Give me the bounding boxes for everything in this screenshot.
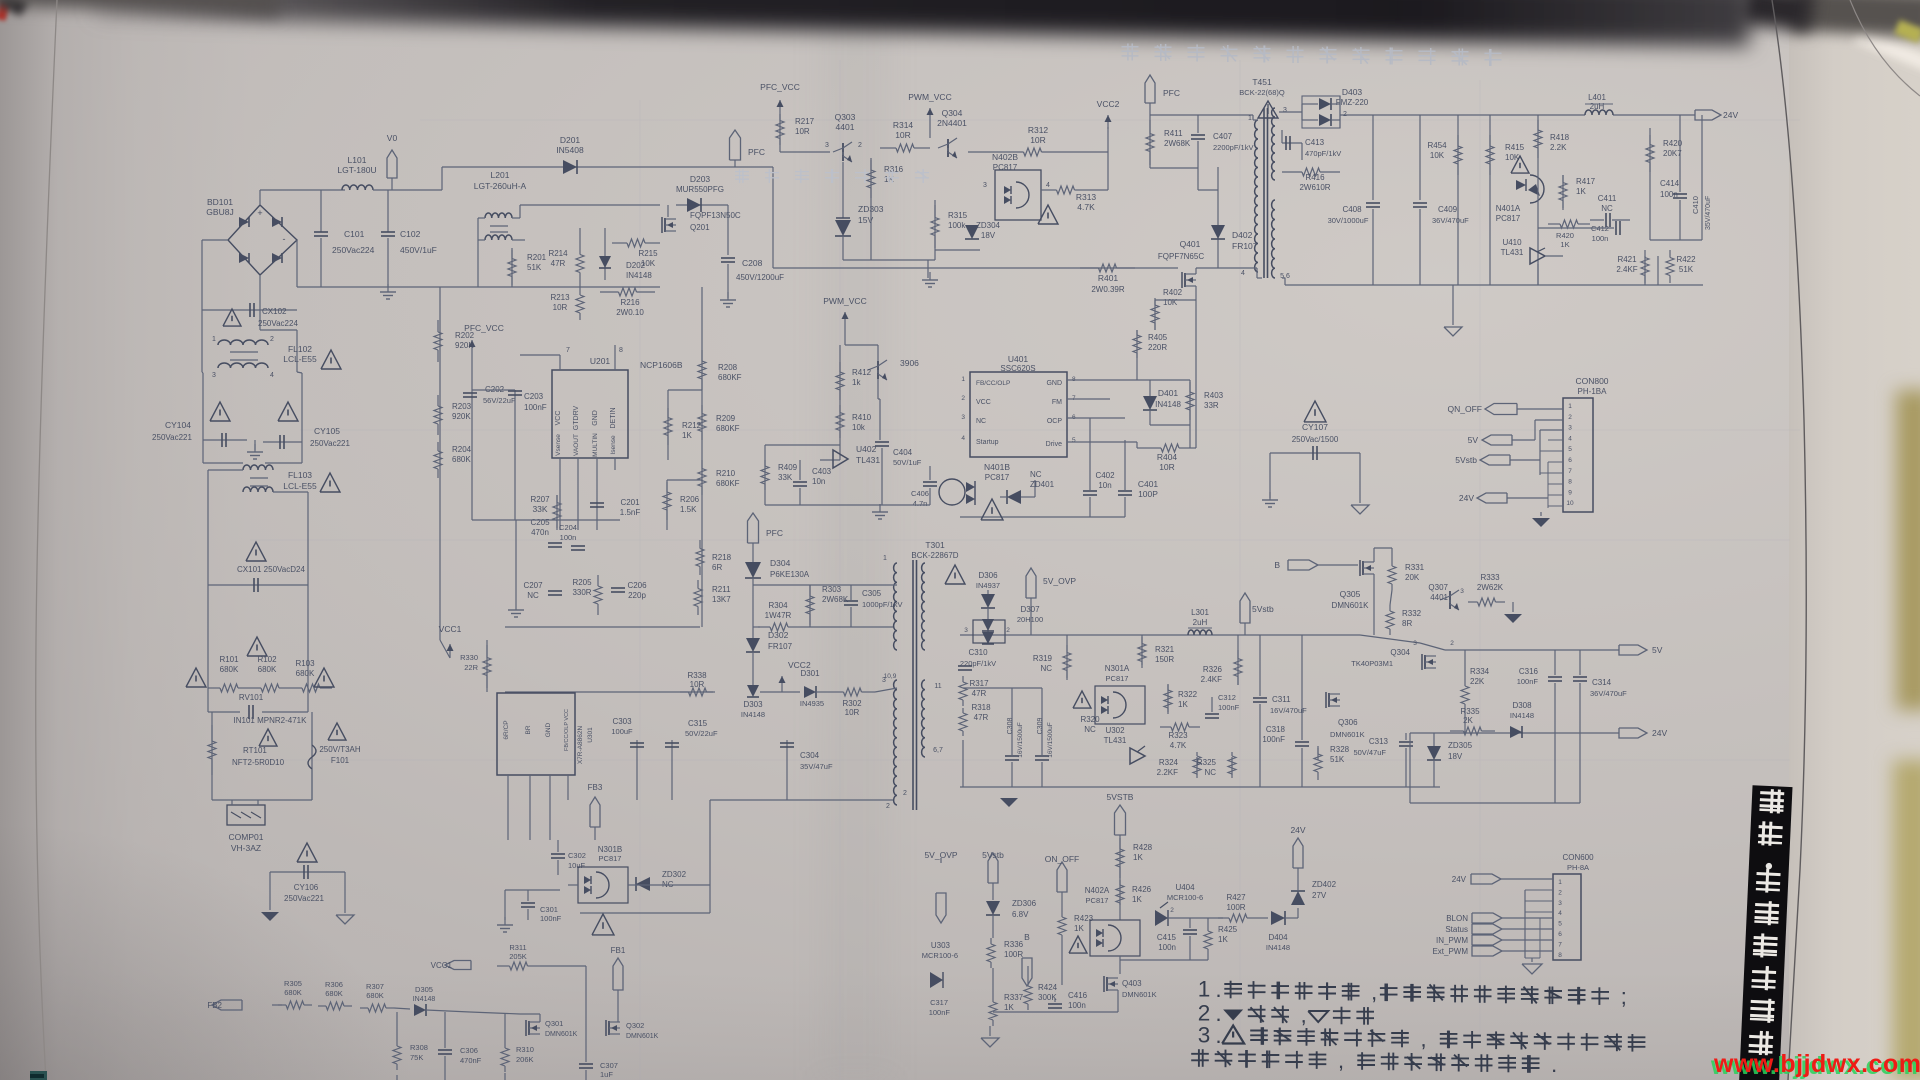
svg-text:2: 2 xyxy=(270,336,274,343)
svg-text:680KF: 680KF xyxy=(718,373,742,382)
svg-text:4.7K: 4.7K xyxy=(1170,741,1187,750)
svg-text:30V/1000uF: 30V/1000uF xyxy=(1328,216,1369,225)
resistor R336 xyxy=(990,938,992,944)
svg-text:MULTIN: MULTIN xyxy=(592,433,599,457)
svg-text:NCP1606B: NCP1606B xyxy=(640,360,683,370)
resistor R333 xyxy=(1468,601,1478,603)
resistor R403 xyxy=(1189,380,1191,425)
svg-text:U401: U401 xyxy=(1008,354,1029,364)
svg-text:ZD302: ZD302 xyxy=(662,870,687,879)
svg-text:D201: D201 xyxy=(560,135,581,145)
svg-text:R338: R338 xyxy=(687,671,707,680)
svg-text:R332: R332 xyxy=(1402,609,1422,618)
svg-text:250Vac224: 250Vac224 xyxy=(332,245,375,255)
wire xyxy=(520,204,660,206)
svg-text:5V: 5V xyxy=(1468,435,1479,445)
capacitor CX101 xyxy=(208,584,308,586)
resistor R421 xyxy=(1644,256,1646,285)
svg-text:R403: R403 xyxy=(1204,391,1224,400)
resistor R316 xyxy=(870,158,872,200)
svg-text:Q201: Q201 xyxy=(690,223,710,232)
bridge rectifier BD101 xyxy=(228,205,297,275)
warning xyxy=(1511,156,1529,173)
svg-text:+: + xyxy=(257,208,262,218)
resistor R323 xyxy=(1160,726,1171,728)
svg-text:1K: 1K xyxy=(1560,240,1569,249)
resistor R427 xyxy=(1218,917,1229,919)
capacitor C203 xyxy=(514,390,516,520)
capacitor C206 xyxy=(611,587,625,589)
node 5V_OVP xyxy=(1026,568,1036,598)
svg-text:9: 9 xyxy=(1568,489,1572,496)
svg-text:B: B xyxy=(1024,932,1030,942)
resistor R402 xyxy=(1154,300,1156,330)
node V0 xyxy=(387,150,397,178)
capacitor C101 xyxy=(320,190,322,232)
svg-text:U404: U404 xyxy=(1175,883,1195,892)
svg-text:2W610R: 2W610R xyxy=(1299,183,1330,192)
svg-text:C204: C204 xyxy=(559,523,577,532)
svg-text:8: 8 xyxy=(1558,952,1562,959)
wire xyxy=(1196,267,1257,269)
wire vcc2 line xyxy=(505,691,713,693)
svg-text:IN4148: IN4148 xyxy=(741,710,765,719)
svg-text:LGT-180U: LGT-180U xyxy=(337,165,376,175)
ground xyxy=(927,260,929,278)
svg-text:22K: 22K xyxy=(1470,677,1485,686)
svg-text:Drive: Drive xyxy=(1046,441,1062,448)
resistor R322 xyxy=(1167,685,1169,712)
svg-text:100n: 100n xyxy=(1592,234,1609,243)
svg-text:C316: C316 xyxy=(1519,667,1539,676)
resistor R203 xyxy=(437,395,439,406)
ground xyxy=(254,440,256,450)
svg-text:.: . xyxy=(1215,1023,1221,1048)
svg-text:TL431: TL431 xyxy=(1501,248,1524,257)
resistor R304 xyxy=(758,626,770,628)
svg-text:4.7K: 4.7K xyxy=(1077,202,1095,212)
right page edge curve xyxy=(1772,0,1806,1080)
svg-text:R308: R308 xyxy=(410,1043,428,1052)
svg-text:R306: R306 xyxy=(325,980,343,989)
node PFC flag xyxy=(1145,75,1155,103)
diode D404 xyxy=(1258,917,1268,919)
svg-text:,: , xyxy=(1420,1026,1426,1051)
svg-text:10n: 10n xyxy=(812,477,825,486)
capacitor C407 xyxy=(1197,115,1199,133)
capacitor C205 xyxy=(548,542,562,544)
svg-text:R328: R328 xyxy=(1330,745,1350,754)
svg-text:C408: C408 xyxy=(1342,205,1362,214)
svg-text:2: 2 xyxy=(903,790,907,797)
ground xyxy=(1540,512,1542,516)
svg-text:R322: R322 xyxy=(1178,690,1198,699)
svg-text:R333: R333 xyxy=(1480,573,1500,582)
svg-text:R312: R312 xyxy=(1028,125,1049,135)
svg-text:Q303: Q303 xyxy=(835,112,856,122)
svg-text:P6KE130A: P6KE130A xyxy=(770,570,810,579)
svg-text:6: 6 xyxy=(1568,457,1572,464)
resistor R417 xyxy=(1562,175,1564,210)
resistor R204 xyxy=(437,442,439,451)
svg-text:50V/47uF: 50V/47uF xyxy=(1353,748,1386,757)
MOSFET Q301 xyxy=(525,1020,527,1036)
svg-text:L301: L301 xyxy=(1191,608,1209,617)
svg-text:V0: V0 xyxy=(387,133,398,143)
warning xyxy=(592,914,614,935)
resistor R325 xyxy=(1231,757,1233,775)
warning xyxy=(328,723,346,740)
node PFC flag xyxy=(748,513,759,543)
svg-text:C315: C315 xyxy=(688,719,708,728)
svg-text:Vsense: Vsense xyxy=(555,434,562,456)
resistor R305 xyxy=(278,1004,286,1006)
svg-text:33K: 33K xyxy=(778,473,793,482)
svg-text:IN4148: IN4148 xyxy=(1155,400,1181,409)
svg-text:IN5408: IN5408 xyxy=(556,145,584,155)
svg-text:24V: 24V xyxy=(1723,110,1738,120)
ground xyxy=(515,602,517,610)
transformer L201 xyxy=(485,213,512,218)
svg-text:10K: 10K xyxy=(641,259,656,268)
svg-text:1K: 1K xyxy=(1132,895,1142,904)
svg-text:100R: 100R xyxy=(1226,903,1245,912)
bleedthrough ghost text xyxy=(1122,46,1139,48)
svg-text:NC: NC xyxy=(1030,470,1042,479)
ground xyxy=(504,917,506,925)
svg-text:Status: Status xyxy=(1445,925,1468,934)
wire xyxy=(202,239,228,241)
svg-text:18V: 18V xyxy=(1448,752,1463,761)
svg-text:10n: 10n xyxy=(1098,481,1111,490)
svg-text:5: 5 xyxy=(1568,446,1572,453)
svg-text:250V/T3AH: 250V/T3AH xyxy=(319,745,361,754)
svg-text:4.7n: 4.7n xyxy=(913,499,928,508)
zener ZD302 xyxy=(636,877,650,891)
svg-text:2W0.39R: 2W0.39R xyxy=(1091,285,1125,294)
opto N402B PC817 xyxy=(995,170,1041,220)
svg-text:680K: 680K xyxy=(296,669,315,678)
svg-text:C403: C403 xyxy=(812,467,832,476)
svg-text:680K: 680K xyxy=(325,989,343,998)
svg-text:,: , xyxy=(1371,980,1377,1005)
svg-text:PC817: PC817 xyxy=(1086,896,1109,905)
node Status xyxy=(1472,924,1502,934)
svg-text:VAOUT: VAOUT xyxy=(573,434,580,456)
resistor R330 xyxy=(486,640,488,692)
svg-text:QN_OFF: QN_OFF xyxy=(1448,404,1482,414)
svg-text:TL431: TL431 xyxy=(856,455,880,465)
resistor R405 xyxy=(1136,330,1138,360)
svg-text:R313: R313 xyxy=(1076,192,1097,202)
svg-text:C317: C317 xyxy=(930,998,948,1007)
svg-text:C302: C302 xyxy=(568,851,586,860)
svg-text:C304: C304 xyxy=(800,751,820,760)
svg-text:FB3: FB3 xyxy=(588,783,603,792)
node 24V flag xyxy=(1471,874,1501,884)
svg-text:R402: R402 xyxy=(1163,288,1183,297)
svg-text:5VSTB: 5VSTB xyxy=(1107,792,1134,802)
svg-text:Q403: Q403 xyxy=(1122,979,1142,988)
svg-text:75K: 75K xyxy=(410,1053,423,1062)
resistor R314 xyxy=(880,147,896,149)
svg-text:NC: NC xyxy=(976,418,986,425)
svg-text:Startup: Startup xyxy=(976,439,999,446)
svg-text:C310: C310 xyxy=(968,648,988,657)
svg-text:CX102: CX102 xyxy=(262,307,287,316)
wire xyxy=(752,543,754,562)
resistor R103 xyxy=(290,687,302,689)
svg-text:GND: GND xyxy=(545,722,552,737)
svg-text:2W68K: 2W68K xyxy=(822,595,849,604)
svg-text:R211: R211 xyxy=(712,585,731,594)
wire xyxy=(297,286,660,288)
svg-text:47R: 47R xyxy=(974,713,989,722)
resistor R420 xyxy=(1548,223,1560,225)
svg-text:R103: R103 xyxy=(295,659,315,668)
ground xyxy=(1452,285,1454,325)
resistor R326 xyxy=(1237,635,1239,685)
svg-text:N401B: N401B xyxy=(984,462,1010,472)
svg-text:450V/1200uF: 450V/1200uF xyxy=(736,273,784,282)
svg-text:1uF: 1uF xyxy=(600,1070,613,1079)
svg-text:R205: R205 xyxy=(572,578,592,587)
svg-text:3: 3 xyxy=(983,182,987,189)
svg-text:R307: R307 xyxy=(366,982,384,991)
svg-text:PC817: PC817 xyxy=(985,473,1010,482)
svg-text:10K: 10K xyxy=(1163,298,1178,307)
resistor R409 xyxy=(764,460,766,490)
svg-text:R305: R305 xyxy=(284,979,302,988)
faint print grid xyxy=(250,60,1800,1080)
wire xyxy=(1701,115,1703,240)
wire xyxy=(1120,854,1158,856)
svg-text:C305: C305 xyxy=(862,589,882,598)
svg-text:2200pF/1kV: 2200pF/1kV xyxy=(1213,143,1253,152)
zener ZD304 xyxy=(935,249,980,251)
svg-text:R423: R423 xyxy=(1074,914,1094,923)
wire xyxy=(1067,379,1142,381)
transistor Q402 xyxy=(877,361,879,379)
svg-text:R421: R421 xyxy=(1617,255,1637,264)
svg-text:GTDRV: GTDRV xyxy=(573,405,580,430)
svg-text:5Vstb: 5Vstb xyxy=(982,850,1004,860)
banner Changhong LCD TV xyxy=(1739,785,1793,1080)
svg-text:920K: 920K xyxy=(452,412,471,421)
svg-text:L201: L201 xyxy=(491,170,510,180)
svg-text:1.5nF: 1.5nF xyxy=(620,508,641,517)
svg-text:680KF: 680KF xyxy=(716,479,740,488)
svg-text:C410: C410 xyxy=(1691,196,1700,214)
svg-text:ZD306: ZD306 xyxy=(1012,899,1037,908)
svg-text:R404: R404 xyxy=(1157,452,1178,462)
resistor R422 xyxy=(1657,256,1659,285)
ground xyxy=(1269,492,1271,500)
svg-text:D308: D308 xyxy=(1512,701,1532,710)
wire xyxy=(470,1012,520,1014)
IC U201 NCP1606B xyxy=(552,370,628,458)
svg-text:10R: 10R xyxy=(1159,462,1175,472)
resistor R319 xyxy=(1066,635,1068,680)
svg-text:FR107: FR107 xyxy=(1232,241,1258,251)
node 5Vstb xyxy=(988,853,998,883)
node 24V btm xyxy=(1293,838,1303,868)
svg-text:NC: NC xyxy=(527,591,539,600)
svg-text:1.5K: 1.5K xyxy=(680,505,697,514)
svg-text:250Vac224: 250Vac224 xyxy=(258,319,298,328)
svg-text:10R: 10R xyxy=(1030,135,1046,145)
svg-text:PC817: PC817 xyxy=(993,163,1018,172)
svg-text:100nF: 100nF xyxy=(1262,735,1285,744)
svg-text:R334: R334 xyxy=(1470,667,1490,676)
warning xyxy=(186,668,206,687)
svg-text:250Vac221: 250Vac221 xyxy=(152,433,192,442)
svg-text:7: 7 xyxy=(566,347,570,354)
capacitor C204 xyxy=(571,545,585,547)
wire xyxy=(1197,168,1199,190)
svg-text:R415: R415 xyxy=(1505,143,1525,152)
svg-text:R321: R321 xyxy=(1155,645,1175,654)
svg-text:R214: R214 xyxy=(548,249,568,258)
svg-text:2: 2 xyxy=(886,803,890,810)
svg-text:100nF: 100nF xyxy=(524,403,547,412)
svg-text:10R: 10R xyxy=(795,127,810,136)
svg-text:PFC: PFC xyxy=(766,528,783,538)
svg-text:DMN601K: DMN601K xyxy=(1122,990,1157,999)
inductor L101 xyxy=(342,185,373,190)
svg-text:2.4KF: 2.4KF xyxy=(1201,675,1222,684)
svg-text:NC: NC xyxy=(1601,204,1613,213)
wire xyxy=(968,151,1005,153)
svg-text:C407: C407 xyxy=(1213,132,1233,141)
svg-text:D304: D304 xyxy=(770,558,791,568)
IC U401 SSC620S xyxy=(970,372,1067,457)
MOSFET Q302 xyxy=(605,1020,607,1036)
svg-text:20K7: 20K7 xyxy=(1663,149,1682,158)
svg-text:NC: NC xyxy=(1204,768,1216,777)
svg-text:C413: C413 xyxy=(1305,138,1325,147)
wire xyxy=(772,167,774,268)
svg-text:LCL-E55: LCL-E55 xyxy=(283,354,317,364)
svg-text:6: 6 xyxy=(1558,931,1562,938)
svg-text:R426: R426 xyxy=(1132,885,1152,894)
svg-text:R422: R422 xyxy=(1676,255,1696,264)
svg-text:FB/CC/OLP VCC: FB/CC/OLP VCC xyxy=(564,709,570,751)
resistor R428 xyxy=(1119,835,1121,880)
svg-text:,: , xyxy=(1338,1048,1344,1073)
svg-text:11: 11 xyxy=(934,683,941,690)
diode D301 xyxy=(760,691,800,693)
ground xyxy=(336,915,354,924)
svg-text:PWM_VCC: PWM_VCC xyxy=(908,92,951,102)
svg-text:10R: 10R xyxy=(553,303,568,312)
svg-text:10R: 10R xyxy=(895,130,911,140)
resistor R218 xyxy=(699,540,701,549)
node 5V_OVP down xyxy=(936,893,946,923)
wire 24V rail xyxy=(1340,114,1585,116)
svg-text:C203: C203 xyxy=(524,392,544,401)
warning xyxy=(1304,401,1326,422)
ground xyxy=(989,1026,991,1036)
svg-text:Isense: Isense xyxy=(610,435,617,455)
svg-text:CY106: CY106 xyxy=(294,883,319,892)
svg-text:8: 8 xyxy=(1568,479,1572,486)
wire xyxy=(505,889,560,891)
svg-text:Q301: Q301 xyxy=(545,1019,563,1028)
svg-text:R416: R416 xyxy=(1305,173,1325,182)
svg-text:FMZ-220: FMZ-220 xyxy=(1336,98,1369,107)
svg-text:100nF: 100nF xyxy=(1517,677,1539,686)
diode D202 xyxy=(604,250,606,280)
svg-text:1: 1 xyxy=(212,336,216,343)
svg-text:6R: 6R xyxy=(712,563,722,572)
svg-text:TK40P03M1: TK40P03M1 xyxy=(1351,659,1393,668)
svg-text:470pF/1kV: 470pF/1kV xyxy=(1305,149,1341,158)
wire xyxy=(207,497,209,688)
resistor R328 xyxy=(1317,748,1319,760)
svg-text:50V/1uF: 50V/1uF xyxy=(893,458,922,467)
capacitor C314 xyxy=(1579,650,1581,675)
resistor R411 xyxy=(1149,115,1151,168)
svg-text:GBU8J: GBU8J xyxy=(206,207,233,217)
svg-text:R409: R409 xyxy=(778,463,798,472)
svg-text:C306: C306 xyxy=(460,1046,478,1055)
resistor R102 xyxy=(250,687,261,689)
svg-text:5V_OVP: 5V_OVP xyxy=(1043,576,1076,586)
inductor L401 xyxy=(1585,110,1613,115)
svg-text:IN4148: IN4148 xyxy=(1510,711,1534,720)
svg-text:C404: C404 xyxy=(893,448,913,457)
resistor R201 xyxy=(511,248,513,287)
wire xyxy=(520,1013,540,1015)
ground xyxy=(727,292,729,300)
svg-text:4: 4 xyxy=(270,372,274,379)
diode D201 xyxy=(442,166,773,168)
svg-text:U402: U402 xyxy=(856,444,877,454)
resistor R423 xyxy=(1061,912,1063,917)
svg-text:250Vac/1500: 250Vac/1500 xyxy=(1292,435,1339,444)
svg-text:2: 2 xyxy=(1450,640,1454,647)
inductor L301 xyxy=(1188,630,1212,635)
svg-text:2: 2 xyxy=(1170,907,1174,914)
svg-text:C416: C416 xyxy=(1068,991,1088,1000)
svg-text:3: 3 xyxy=(1198,1023,1211,1048)
svg-text:D301: D301 xyxy=(800,669,820,678)
svg-text:Q304: Q304 xyxy=(1390,648,1410,657)
svg-text:100nF: 100nF xyxy=(540,914,562,923)
capacitor C413 xyxy=(1282,142,1302,144)
node 24V flag xyxy=(1477,493,1507,503)
node FB1 xyxy=(613,958,623,990)
svg-text:.: . xyxy=(1215,977,1221,1002)
node B flag xyxy=(1288,560,1318,570)
svg-text:100k: 100k xyxy=(948,221,966,230)
wire bottom rail xyxy=(1282,277,1285,279)
ground xyxy=(261,912,279,921)
svg-text:5Vstb: 5Vstb xyxy=(1252,604,1274,614)
note line 4 xyxy=(1191,1053,1209,1055)
svg-text:PWM_VCC: PWM_VCC xyxy=(823,296,866,306)
svg-text:1K: 1K xyxy=(1576,187,1586,196)
resistor R426b xyxy=(1649,128,1651,240)
svg-text:FB2: FB2 xyxy=(207,1001,222,1010)
resistor R331 xyxy=(1391,548,1393,560)
svg-text:D303: D303 xyxy=(743,700,763,709)
svg-text:Q302: Q302 xyxy=(626,1021,644,1030)
opto part xyxy=(939,479,965,505)
wire xyxy=(1409,733,1411,803)
svg-text:4: 4 xyxy=(961,435,965,442)
